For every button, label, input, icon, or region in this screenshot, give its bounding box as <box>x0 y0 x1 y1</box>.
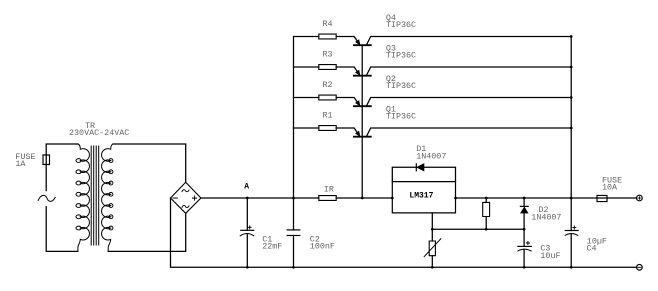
svg-text:C4: C4 <box>587 244 597 254</box>
svg-text:R1: R1 <box>323 110 333 120</box>
svg-text:22mF: 22mF <box>262 242 282 252</box>
svg-text:TIP36C: TIP36C <box>386 20 416 30</box>
svg-text:A: A <box>244 183 249 192</box>
svg-text:1N4007: 1N4007 <box>531 213 561 223</box>
svg-text:LM317: LM317 <box>409 191 433 200</box>
svg-text:R2: R2 <box>323 80 333 90</box>
svg-text:TIP36C: TIP36C <box>386 81 416 91</box>
svg-text:230VAC-24VAC: 230VAC-24VAC <box>69 128 129 138</box>
svg-text:1N4007: 1N4007 <box>416 152 446 162</box>
svg-text:TIP36C: TIP36C <box>386 112 416 122</box>
svg-text:10uF: 10uF <box>540 251 560 261</box>
svg-text:R4: R4 <box>323 19 333 29</box>
svg-text:TIP36C: TIP36C <box>386 51 416 61</box>
svg-text:100nF: 100nF <box>310 242 335 252</box>
svg-text:10A: 10A <box>602 182 618 192</box>
svg-text:IR: IR <box>324 184 334 194</box>
svg-text:1A: 1A <box>15 159 26 169</box>
svg-text:R3: R3 <box>323 49 333 59</box>
